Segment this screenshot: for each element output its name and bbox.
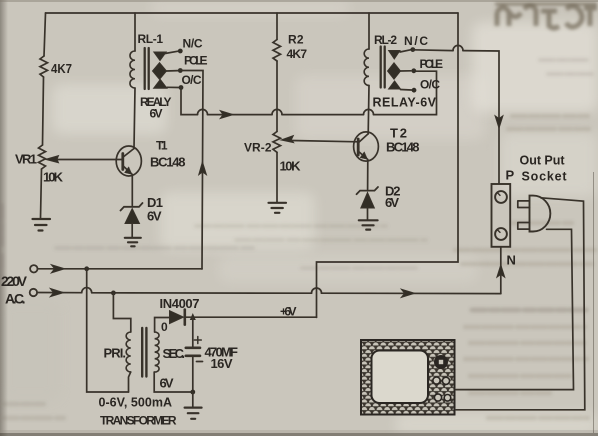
svg-text:0-6V, 500mA: 0-6V, 500mA	[99, 396, 173, 410]
right page edge line	[593, 172, 595, 433]
wire RL-2 coil feed	[368, 13, 370, 49]
arrow up socket N feed	[497, 265, 505, 278]
ground (below D1)	[125, 238, 141, 247]
RL-1 O/C stub	[167, 86, 179, 88]
RL-1 pole stub	[167, 70, 179, 72]
wire RL-1 coil feed	[134, 13, 136, 51]
plug prong bottom	[518, 223, 530, 230]
wire +6V riser right (top rail to lower link)	[317, 13, 459, 317]
terminal 220V upper circle	[30, 265, 37, 272]
svg-text:10K: 10K	[43, 170, 64, 185]
transformer core bars	[142, 328, 146, 377]
RL-1 N/C stub	[165, 51, 178, 53]
svg-text:N: N	[507, 253, 516, 268]
capacitor plus sign	[194, 337, 201, 344]
wire D2 to ground	[367, 208, 369, 220]
VR-2 wiper arrow	[281, 135, 294, 142]
transistor T2 BC148 circle	[354, 132, 379, 161]
resistor R 4K7 (left)	[40, 56, 48, 77]
relay RL-2 coil	[364, 49, 369, 85]
node AC bottom / primary top tap	[111, 291, 116, 296]
svg-text:RL-1: RL-1	[138, 32, 164, 46]
wire T1 base to VR1 wiper	[56, 159, 123, 161]
relay RL-1 contact pole diamond	[153, 63, 167, 80]
wire socket N to AC bottom	[500, 247, 502, 294]
svg-text:POLE: POLE	[184, 54, 208, 68]
hop over R2/VR-2 vertical	[272, 109, 282, 114]
arrow up on POLE-AC vertical	[199, 162, 207, 176]
wire plug top lead to box	[456, 198, 585, 410]
ground (below VR-2)	[269, 203, 287, 213]
ground (below VR1)	[33, 219, 51, 231]
zener D2 triangle	[361, 193, 375, 209]
node RL-2 O/C terminal	[412, 88, 417, 93]
svg-text:Out Put: Out Put	[520, 154, 566, 168]
zener D1 bar	[121, 203, 143, 211]
zener D2 bar	[357, 187, 379, 194]
relay RL-2 core bars	[381, 47, 385, 88]
relay RL-1 contact N/C triangle	[154, 52, 166, 61]
socket hole N	[495, 228, 507, 240]
wire secondary top lead to diode	[155, 318, 169, 333]
svg-text:O/C: O/C	[420, 78, 440, 92]
svg-text:IN4007: IN4007	[160, 296, 200, 311]
wire RL-1 POLE to AC line (vertical)	[180, 71, 203, 270]
terminal 220V lower circle	[30, 289, 37, 296]
T1 emitter arrow	[125, 167, 132, 174]
node RL-2 POLE terminal	[411, 68, 416, 73]
Out Put Socket rectangle	[492, 184, 511, 247]
svg-text:T1: T1	[156, 139, 168, 153]
relay RL-2 contact pole diamond	[388, 63, 401, 79]
svg-text:6V: 6V	[385, 195, 399, 210]
wire left rail upper	[44, 13, 46, 56]
wire D1 to ground	[131, 224, 133, 238]
svg-text:POLE: POLE	[420, 57, 444, 71]
appliance box window	[372, 351, 429, 404]
node RL-1 POLE terminal	[178, 68, 183, 73]
potentiometer VR1 10K body	[39, 145, 46, 169]
wire secondary bottom lead	[154, 372, 193, 392]
left edge scan shadow	[0, 0, 8, 436]
bottom edge scan line	[0, 433, 598, 436]
wire plug bottom lead to box	[456, 229, 574, 389]
wire +6V from diode	[186, 316, 317, 318]
node RL-1 O/C terminal	[179, 85, 184, 90]
wire capacitor bottom lead	[192, 356, 194, 392]
plug prong top	[518, 201, 530, 208]
wire RL-2 coil bottom to T2 collector	[367, 86, 370, 134]
relay RL-1 core bars	[145, 48, 149, 89]
T2 base bar	[357, 139, 360, 155]
arrow right on pole link wire	[220, 111, 234, 119]
svg-text:6V: 6V	[160, 376, 174, 391]
T1 emitter diagonal	[123, 166, 132, 206]
relay RL-2 contact O/C triangle	[389, 81, 401, 89]
svg-text:4K7: 4K7	[287, 47, 308, 61]
wire top +6V rail	[46, 12, 459, 14]
paper light patches	[52, 84, 167, 134]
zener D1 triangle	[125, 209, 140, 224]
svg-text:RELAY-6V: RELAY-6V	[373, 96, 437, 110]
wire VR-2 wiper to T2 base	[292, 141, 359, 142]
wire RL-1 O/C down then right (pole link)	[181, 71, 437, 114]
hop over pole-AC vertical	[198, 109, 208, 114]
svg-text:6V: 6V	[150, 107, 163, 121]
appliance box (hatched)	[361, 340, 455, 415]
transformer secondary coil	[155, 332, 159, 372]
RL-2 N/C stub	[400, 50, 411, 52]
arrow on AC bottom left	[50, 288, 64, 297]
svg-text:VR-2: VR-2	[244, 141, 272, 155]
hop over RL-2 coil/T2 vertical	[364, 109, 374, 114]
wire capacitor top lead	[192, 317, 194, 346]
node capacitor top junction	[190, 313, 196, 320]
svg-text:+6V: +6V	[280, 305, 297, 319]
potentiometer VR-2 10K body	[273, 132, 281, 153]
svg-text:N/C: N/C	[183, 37, 203, 51]
appliance box knob	[434, 355, 448, 369]
wire R2 to VR-2 (passes pole link with hop)	[276, 61, 278, 132]
svg-text:TRANSFORMER: TRANSFORMER	[100, 414, 177, 428]
svg-text:Socket: Socket	[522, 170, 568, 184]
plug body	[530, 196, 551, 232]
wire RL-2 N/C to socket P	[413, 50, 499, 184]
svg-text:BC148: BC148	[150, 155, 186, 170]
wire primary bottom lead	[129, 372, 131, 392]
resistor R2 4K7	[273, 40, 281, 62]
svg-text:O/C: O/C	[182, 73, 202, 87]
wire VR-2 to ground	[276, 152, 278, 202]
T2 collector diagonal	[359, 134, 369, 143]
top edge scan line	[0, 0, 598, 2]
svg-text:R2: R2	[288, 33, 304, 47]
svg-text:P: P	[506, 168, 515, 183]
relay RL-1 contact O/C triangle	[154, 80, 167, 89]
T2 emitter diagonal	[359, 152, 368, 190]
svg-text:6V: 6V	[147, 209, 162, 224]
socket hole P	[495, 191, 507, 203]
svg-text:4K7: 4K7	[51, 61, 72, 76]
wire left rail middle	[43, 77, 44, 145]
svg-text:RL-2: RL-2	[374, 33, 397, 47]
ground (transformer/capacitor)	[185, 408, 202, 419]
wire to transformer ground	[192, 392, 194, 407]
diode IN4007 cathode bar	[184, 310, 187, 325]
wire primary top staircase	[113, 293, 130, 332]
capacitor minus sign	[197, 361, 203, 363]
wire AC bottom line	[37, 293, 501, 294]
svg-text:A.C.: A.C.	[5, 291, 26, 307]
node secondary ground junction	[190, 390, 195, 395]
wire AC top line	[38, 268, 203, 270]
svg-text:0: 0	[161, 320, 168, 334]
svg-text:PRI.: PRI.	[104, 346, 127, 361]
T2 emitter arrow	[360, 152, 367, 159]
transformer primary coil	[126, 332, 131, 372]
hop over +6V vertical on N/C wire	[453, 45, 463, 50]
node RL-2 N/C terminal	[410, 47, 415, 52]
relay RL-1 coil	[130, 51, 135, 88]
resistor R2 4K7 top lead	[276, 13, 278, 40]
T1 base bar	[121, 154, 124, 170]
appliance box grommets	[433, 377, 440, 384]
transistor T1 BC148 circle	[116, 146, 141, 176]
hop AC bottom over primary drop	[82, 288, 92, 293]
T1 collector diagonal	[123, 149, 134, 158]
arrow on AC bottom right	[401, 289, 415, 298]
relay RL-2 contact N/C triangle	[389, 51, 400, 60]
wire VR1 to ground	[41, 169, 42, 218]
node RL-1 N/C terminal	[178, 49, 183, 54]
svg-text:T2: T2	[390, 126, 407, 141]
hop AC bottom over +6V riser	[312, 288, 322, 293]
wire RL-1 coil bottom to T1 collector	[134, 88, 135, 149]
RL-2 pole stub	[401, 70, 412, 72]
wire primary drop from AC top	[87, 269, 129, 392]
svg-text:SEC.: SEC.	[163, 346, 186, 361]
svg-text:220V: 220V	[1, 273, 28, 289]
RL-2 O/C stub	[401, 89, 412, 92]
svg-text:BC148: BC148	[386, 140, 420, 155]
ground (below D2)	[359, 220, 378, 229]
svg-text:16V: 16V	[211, 356, 233, 371]
arrow on AC top	[51, 265, 65, 274]
svg-text:10K: 10K	[280, 159, 302, 174]
diode IN4007 triangle	[170, 311, 184, 324]
svg-text:VR1: VR1	[15, 152, 37, 167]
svg-text:N/C: N/C	[404, 34, 428, 48]
arrow down on socket P feed	[495, 116, 503, 129]
capacitor C1 470MF plates	[186, 348, 200, 356]
VR1 wiper arrow	[46, 156, 59, 163]
node AC top / transformer primary tap	[84, 266, 89, 271]
